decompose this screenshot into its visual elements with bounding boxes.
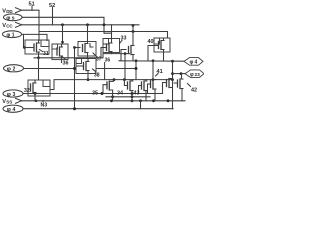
wire phi2	[24, 68, 77, 70]
svg-text:40: 40	[148, 39, 154, 45]
node Q35 drain dot	[61, 41, 64, 44]
transistor Q? top right mid	[121, 26, 134, 61]
wire T31 source to bus	[38, 54, 40, 58]
node phi2 dot2	[135, 67, 138, 70]
node bus2 a	[135, 59, 138, 62]
node Vcc x104	[103, 23, 106, 26]
wire phi2 right	[96, 68, 136, 70]
svg-text:φ: φ	[7, 67, 11, 73]
svg-text:42: 42	[191, 88, 197, 94]
node VSS d	[167, 99, 170, 102]
svg-text:SS: SS	[6, 99, 12, 104]
label 51	[29, 2, 35, 11]
transistor Q40	[148, 38, 170, 61]
wire phi4	[24, 108, 174, 110]
node Vcc to Q?	[132, 24, 135, 27]
svg-text:3: 3	[13, 92, 16, 98]
node Vcc to Q37	[86, 23, 89, 26]
node phi4 a	[73, 107, 76, 110]
wire bus1 to bus2	[124, 54, 126, 80]
label 40	[148, 39, 154, 45]
svg-text:4: 4	[13, 107, 16, 113]
transistor Q38	[76, 59, 96, 80]
node Vcc to Q35	[61, 23, 64, 26]
terminal phi1 oval	[3, 31, 22, 39]
wire Vcc rail	[21, 24, 139, 26]
terminal CS oval	[4, 14, 23, 22]
node VSS b	[131, 99, 134, 102]
wire VDD rail	[21, 10, 39, 40]
terminal VDD	[2, 8, 21, 15]
label 43	[134, 90, 140, 96]
label 41	[156, 69, 163, 76]
wire out col down	[172, 76, 174, 109]
svg-text:φ: φ	[7, 107, 11, 113]
node bus1 end	[124, 52, 127, 55]
label 36	[105, 58, 111, 80]
label 38	[93, 69, 100, 78]
node gate T31	[23, 46, 26, 49]
wire VSS rail	[21, 100, 185, 102]
wire gate T31	[25, 47, 35, 49]
wire vss drop	[140, 101, 142, 109]
wire CS rail	[22, 17, 112, 33]
terminal out2 oval	[185, 70, 204, 78]
label 35	[92, 90, 98, 96]
svg-text:36: 36	[105, 58, 111, 64]
label 34	[117, 90, 123, 96]
node phi3 c	[131, 92, 134, 95]
node source bus b	[131, 95, 134, 98]
svg-text:φ: φ	[6, 16, 10, 22]
node N2 a	[113, 78, 116, 81]
node bus left	[37, 56, 40, 59]
svg-text:φ: φ	[7, 92, 11, 98]
label 33	[120, 35, 127, 43]
svg-text:38: 38	[94, 72, 100, 78]
node vss drop	[139, 99, 142, 102]
svg-text:1: 1	[12, 32, 15, 38]
label 53	[41, 101, 48, 109]
wire phi1	[23, 34, 48, 40]
svg-text:2: 2	[13, 67, 16, 73]
terminal phi2 oval	[4, 65, 24, 73]
wire phi1 gate drop	[23, 34, 25, 47]
node bus2 out	[171, 60, 174, 63]
wire node a down	[135, 61, 137, 80]
svg-text:φ: φ	[6, 32, 10, 38]
transistor Q42a	[163, 79, 173, 94]
svg-text:31: 31	[43, 51, 49, 57]
svg-text:φ: φ	[190, 72, 194, 78]
transistor Q35	[103, 80, 114, 101]
wire Q35 drain	[62, 25, 64, 44]
node Q38 source	[87, 78, 90, 81]
terminal Vcc	[2, 22, 21, 29]
transistor Q32	[28, 80, 50, 101]
wire node N2	[50, 80, 173, 90]
wire Q40 source to bus2	[163, 52, 165, 61]
svg-text:DD: DD	[6, 9, 13, 14]
node N2 d	[171, 78, 174, 81]
label 52	[49, 3, 55, 25]
wire bus1	[34, 54, 130, 58]
node VSS c	[152, 99, 155, 102]
transistor Q37	[78, 41, 96, 59]
transistor Q33	[101, 25, 120, 58]
node source bus a	[111, 95, 114, 98]
node phi3 b	[101, 92, 104, 95]
node out2 b	[180, 72, 183, 75]
transistor Q35	[52, 44, 68, 63]
label 32	[24, 88, 30, 94]
node Q32 source	[34, 92, 37, 95]
svg-text:34: 34	[117, 90, 123, 96]
svg-text:43: 43	[134, 90, 140, 96]
wire out2	[173, 73, 186, 75]
node phi2 dot	[73, 67, 76, 70]
transistor Q42b	[174, 74, 183, 101]
wire row3 source bus	[106, 96, 150, 98]
wire bus2	[119, 60, 184, 62]
wire T31 down to Q32	[38, 58, 40, 80]
label 37	[93, 53, 102, 63]
node bus2 b	[152, 59, 155, 62]
svg-text:35: 35	[92, 90, 98, 96]
node out2	[171, 72, 174, 75]
terminal VSS	[2, 98, 21, 105]
transistor Q31	[25, 40, 49, 54]
node N2 c	[152, 78, 155, 81]
node VSS a	[110, 99, 113, 102]
transistor Q34	[124, 80, 133, 101]
svg-text:36: 36	[63, 60, 69, 66]
node gate Q37	[73, 46, 76, 49]
wire gate Q37 to phi2	[74, 48, 76, 109]
svg-text:s: s	[12, 16, 15, 22]
label 36	[63, 57, 69, 66]
svg-text:N3: N3	[41, 103, 48, 109]
terminal phi3 oval	[3, 90, 23, 98]
wire gate Q37	[75, 47, 81, 49]
node N2 b	[123, 78, 126, 81]
terminal out1 oval	[184, 58, 203, 66]
transistor Q43	[139, 80, 148, 101]
wire out vertical	[172, 61, 174, 76]
wire Q37 drain	[87, 25, 89, 41]
svg-text:CC: CC	[6, 23, 13, 28]
node Q32 vss	[35, 100, 38, 103]
svg-text:4: 4	[195, 60, 198, 66]
wire bootstrap line	[39, 32, 168, 39]
node bootstrap	[132, 30, 135, 33]
svg-text:23: 23	[195, 72, 201, 78]
terminal phi4 oval	[3, 105, 23, 113]
label 31	[40, 50, 49, 58]
wire phi3	[24, 93, 163, 95]
svg-text:φ: φ	[190, 60, 194, 66]
transistor Q41	[148, 80, 157, 101]
wire node b down	[152, 61, 154, 80]
label 42	[188, 84, 198, 94]
